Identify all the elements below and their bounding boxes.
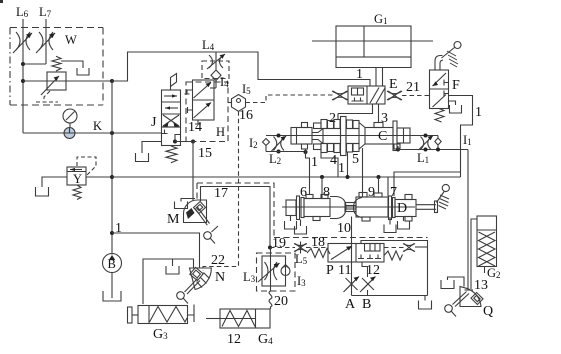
svg-text:H: H <box>216 125 225 139</box>
wire L4 stem <box>215 52 217 70</box>
pressure gauge <box>63 109 77 123</box>
spool D centerline <box>282 206 415 208</box>
pilot controller Q sector <box>460 287 481 307</box>
E right cell diagonals <box>370 88 379 104</box>
valve 14 arrow upper <box>194 83 212 99</box>
wire P right box <box>361 241 428 296</box>
wire G2 supply <box>471 219 477 289</box>
valve 14 port stubs <box>185 90 193 94</box>
spring P left <box>307 249 330 258</box>
svg-text:21: 21 <box>406 80 420 95</box>
G3 rod <box>132 314 138 316</box>
svg-text:G2: G2 <box>487 266 501 280</box>
svg-text:B: B <box>108 257 116 271</box>
wire 15 vertical to M <box>192 142 194 202</box>
wire port6 vertical <box>306 149 310 195</box>
P right stubs <box>358 255 364 259</box>
G1 port lines <box>375 68 377 87</box>
svg-text:L3: L3 <box>243 270 256 284</box>
valve J body <box>162 90 181 127</box>
pump B <box>103 254 122 273</box>
node K <box>110 131 114 135</box>
Q lever <box>453 292 467 305</box>
svg-text:19: 19 <box>272 236 286 251</box>
node 15 <box>191 140 195 144</box>
spool D section B <box>356 197 388 217</box>
spool D left cap <box>286 200 296 216</box>
tank (relief) <box>77 68 89 75</box>
node port6 branch <box>304 150 308 154</box>
node J outlet <box>173 140 177 144</box>
svg-text:L6: L6 <box>16 5 29 19</box>
pilot controller N sector <box>190 268 212 290</box>
svg-text:F: F <box>452 78 460 93</box>
spool D right bars <box>389 196 392 220</box>
wire spring to tank <box>61 61 83 68</box>
svg-text:I3: I3 <box>297 274 306 288</box>
N lever <box>185 279 198 293</box>
svg-text:20: 20 <box>274 294 288 309</box>
svg-text:J: J <box>151 115 157 130</box>
spool D end cap <box>395 200 416 217</box>
svg-text:G1: G1 <box>374 12 388 26</box>
wire E to port 3 <box>378 104 380 123</box>
spool C land tabs top-right <box>347 120 353 129</box>
orifice E left <box>332 91 348 100</box>
D lever <box>437 191 445 203</box>
tank (Y) <box>36 187 49 196</box>
spool C right body <box>365 128 393 145</box>
M dark wedge <box>186 208 195 219</box>
dashed enclosure L3 <box>257 253 296 291</box>
svg-text:B: B <box>362 297 371 312</box>
spool C mid body right <box>346 129 359 144</box>
tank (M) <box>175 202 188 209</box>
F spring <box>435 109 444 123</box>
valve J arrow left <box>165 107 178 109</box>
svg-text:P: P <box>326 263 334 278</box>
wire E to port 2 jog <box>337 114 339 120</box>
wire 19 down through L3 <box>270 248 272 292</box>
F lever <box>442 48 455 59</box>
Q knob <box>445 305 453 313</box>
pilot controller M sector <box>184 200 207 223</box>
svg-text:1: 1 <box>356 67 363 82</box>
wire 17 line <box>201 187 271 248</box>
N tank stem <box>172 259 174 266</box>
pilot dashes 16 to E <box>246 95 334 103</box>
node W outlet right <box>110 79 114 83</box>
F upper stub <box>444 80 449 86</box>
spool D end bottom tab <box>405 217 412 222</box>
node W outlet left <box>21 79 25 83</box>
svg-text:13: 13 <box>474 278 488 293</box>
filter circle (blue) <box>64 128 75 139</box>
svg-text:G4: G4 <box>258 332 273 347</box>
cylinder G3 rod cap <box>128 307 133 323</box>
wire D ports verticals <box>321 177 323 198</box>
dashed enclosure H <box>186 82 228 142</box>
D knob <box>442 184 449 191</box>
D rod <box>416 204 436 206</box>
N arc hatches <box>204 273 210 279</box>
node 19 <box>268 246 272 250</box>
svg-text:12: 12 <box>366 263 380 278</box>
spool C right bottom tab <box>394 144 400 149</box>
D tank right <box>389 217 391 225</box>
G4 spring <box>222 311 255 327</box>
corner speck <box>0 0 3 3</box>
svg-text:I2: I2 <box>249 136 258 150</box>
G3 rod right <box>188 305 195 323</box>
spool D section B bottom tab <box>362 217 370 221</box>
P right notch box <box>365 244 381 252</box>
node Y main <box>110 175 114 179</box>
spool D end top tab <box>405 195 412 200</box>
svg-text:11: 11 <box>338 263 351 278</box>
svg-text:L5: L5 <box>295 252 308 266</box>
valve J tappet flag <box>171 74 177 91</box>
dashed enclosure 17 <box>197 183 274 236</box>
G2 stub bottom <box>484 267 486 274</box>
svg-text:I1: I1 <box>463 133 472 147</box>
wire port 5 <box>347 152 349 177</box>
wire bottom AB line <box>352 295 428 297</box>
svg-text:1: 1 <box>311 155 318 170</box>
node L1 top <box>424 134 428 138</box>
wire Y to tank <box>42 177 67 187</box>
wire L7 to L6 <box>23 63 46 65</box>
F bent neck <box>435 56 443 71</box>
svg-text:4: 4 <box>330 153 337 168</box>
check valve I4 <box>211 70 221 80</box>
spool C right bars <box>393 121 397 151</box>
spool C left top tab <box>302 123 308 128</box>
Q inner tilted block <box>471 292 483 304</box>
pilot dashes 16 down to N <box>203 111 239 271</box>
cylinder G4 body <box>220 309 270 328</box>
wire L7 vertical <box>45 19 47 64</box>
spool D bulge <box>330 197 346 219</box>
svg-text:22: 22 <box>211 253 225 268</box>
svg-text:W: W <box>65 33 77 47</box>
M knob <box>204 232 212 240</box>
orifice P right <box>403 244 415 252</box>
svg-text:10: 10 <box>337 221 351 236</box>
spool D section A <box>304 199 330 217</box>
M lever <box>197 207 210 224</box>
svg-text:17: 17 <box>214 186 228 201</box>
tank (F) <box>450 105 462 113</box>
spool C right cap <box>397 128 410 143</box>
N inner tilted block <box>190 267 203 280</box>
relief valve spring <box>52 56 61 71</box>
pilot dashes 16 left <box>228 102 232 104</box>
spool D section B top tabs <box>359 193 367 198</box>
spool C centerline <box>266 135 438 137</box>
wire 15 line <box>175 141 193 143</box>
check valve I1 <box>435 136 441 150</box>
wire N output to G3 <box>143 259 194 304</box>
P left diagonal <box>331 246 352 260</box>
D pivot hatches <box>439 195 450 209</box>
F lower stub <box>444 91 449 97</box>
D tank far right <box>403 217 405 222</box>
spool D neck <box>345 203 356 212</box>
wire F output <box>449 96 473 178</box>
M inner tilted block <box>193 202 205 214</box>
wire J left to tank <box>142 142 162 154</box>
spool C left cap <box>291 128 312 145</box>
wire I1 vertical to Q <box>467 150 469 290</box>
spool C center pillar <box>341 117 347 156</box>
svg-text:I4: I4 <box>220 75 229 89</box>
spool C mid body left <box>323 129 341 144</box>
spool D section A top tab <box>306 195 313 199</box>
svg-text:I5: I5 <box>242 82 251 96</box>
F knob <box>454 42 461 49</box>
valve Y spring <box>73 185 81 200</box>
valve F body <box>430 70 449 109</box>
wire E to port 2 <box>338 104 373 114</box>
wire X to corner <box>415 246 428 248</box>
spool D facing arc <box>354 198 363 218</box>
throttle valve L6 <box>13 32 32 53</box>
check valve I3 <box>281 267 290 276</box>
orifice E right <box>387 91 402 100</box>
tank (AB line) <box>424 296 426 301</box>
valve E body <box>348 86 385 104</box>
wire B branch to N <box>112 233 200 268</box>
svg-text:L7: L7 <box>39 5 52 19</box>
wire port 4 <box>321 150 338 178</box>
cylinder G1 body <box>336 26 411 57</box>
spool C right top tab <box>374 123 383 128</box>
D lever bracket <box>435 201 438 213</box>
G1 rod <box>312 40 433 42</box>
svg-text:18: 18 <box>311 235 325 250</box>
spool C land tabs bottom-right <box>347 144 353 153</box>
valve 14 arrow lower <box>194 103 212 119</box>
node B branch <box>110 231 114 235</box>
valve J crossed section <box>163 115 179 126</box>
spool D bottom tab A <box>313 217 320 221</box>
F tank stub <box>449 101 456 105</box>
node spool right outlet <box>396 148 400 152</box>
G1 bottom skirt <box>336 57 411 68</box>
valve Y body <box>67 167 86 185</box>
throttle valve L7 <box>36 32 55 53</box>
cylinder G3 body <box>138 306 188 324</box>
node L2 bottom <box>277 150 281 154</box>
svg-text:L1: L1 <box>417 151 429 165</box>
E left cell notch <box>352 88 364 95</box>
main line 1 horizontal <box>112 176 461 178</box>
valve P body <box>328 244 384 263</box>
D tank far left <box>290 216 292 222</box>
spool C land tabs top-left <box>314 123 322 129</box>
pressure compensator box <box>47 72 66 90</box>
node L1 bottom <box>424 148 428 152</box>
spool C cone right <box>359 123 365 150</box>
wire L6 vertical <box>22 19 24 133</box>
svg-text:14: 14 <box>188 120 202 135</box>
hose squiggle 20 <box>269 291 272 309</box>
svg-text:D: D <box>397 201 407 216</box>
tank (N) <box>166 266 179 274</box>
spring P right <box>384 251 403 260</box>
node L2 top <box>277 134 281 138</box>
spool C left bottom tab <box>302 144 308 149</box>
valve Y pilot dashes <box>77 157 96 175</box>
svg-text:1: 1 <box>338 161 345 176</box>
valve J lower section <box>162 127 181 146</box>
orifice 19 <box>294 242 307 254</box>
G1 piston <box>363 26 365 57</box>
Q entry tick <box>465 289 474 291</box>
svg-text:C: C <box>378 129 387 144</box>
valve Y arrow <box>70 169 82 171</box>
svg-text:3: 3 <box>381 111 388 126</box>
M tank stub <box>181 199 195 202</box>
dashed enclosure W <box>10 28 103 106</box>
compensator arrow <box>41 76 59 95</box>
pilot dashes 19 <box>270 247 295 249</box>
throttle valve L4 <box>209 55 213 68</box>
svg-text:Q: Q <box>483 304 493 319</box>
wire W outlet horizontal <box>23 80 112 82</box>
restrictor B <box>360 277 376 293</box>
throttle valve L3 <box>265 262 269 280</box>
G4 rod left <box>206 318 220 320</box>
pilot dashes 18 long <box>274 237 428 239</box>
svg-text:5: 5 <box>352 152 359 167</box>
svg-text:K: K <box>93 119 102 133</box>
svg-text:E: E <box>389 77 398 92</box>
L3 solid box <box>262 256 286 286</box>
tank (J) <box>136 153 149 162</box>
G2 spring <box>479 232 496 266</box>
wire Y to main line <box>86 176 112 178</box>
node L6-L7 junction <box>21 62 25 66</box>
throttle valve L2 <box>272 136 287 151</box>
svg-text:Y: Y <box>73 172 82 186</box>
shuttle sensor 16 hexagon <box>232 95 246 112</box>
svg-text:1: 1 <box>475 105 482 120</box>
D tank left <box>300 220 302 227</box>
valve J spring <box>166 146 177 163</box>
svg-text:L4: L4 <box>202 38 215 52</box>
wire L2 lower line <box>266 151 305 153</box>
wire 10 vertical <box>351 217 353 296</box>
node main dots <box>320 175 324 179</box>
dashed enclosure I4 <box>202 61 229 79</box>
restrictor A <box>344 277 360 293</box>
Q tank stub <box>448 277 465 287</box>
tank (Q) <box>441 280 454 289</box>
pilot dashes 21 to F <box>402 95 430 97</box>
svg-text:8: 8 <box>323 185 330 200</box>
spool C neck left <box>312 129 323 144</box>
svg-text:16: 16 <box>239 108 253 123</box>
wire B to tank <box>111 273 113 299</box>
svg-text:12: 12 <box>227 332 241 347</box>
svg-text:L2: L2 <box>269 152 281 166</box>
node I1 bottom <box>436 148 440 152</box>
wire branch to D right <box>394 172 461 196</box>
spool D left bars <box>297 196 300 220</box>
svg-text:M: M <box>167 212 180 227</box>
wire B restrictor down <box>367 290 369 296</box>
pilot dashes P right <box>384 247 404 249</box>
check valve I2 <box>263 139 270 146</box>
svg-text:A: A <box>345 297 356 312</box>
spool C land tabs bottom-left <box>314 144 322 150</box>
compensator pilot dashes <box>36 91 58 102</box>
cylinder G2 body <box>477 216 497 267</box>
F upper diagonal <box>433 73 447 86</box>
svg-text:2: 2 <box>329 111 336 126</box>
valve J arrow right <box>164 95 177 97</box>
svg-text:N: N <box>215 270 225 285</box>
F lower diagonal <box>433 95 447 108</box>
throttle valve L1 <box>419 136 434 151</box>
svg-text:G3: G3 <box>153 327 168 342</box>
svg-text:1: 1 <box>115 221 122 236</box>
wire system line 1 upper: to E valve <box>112 52 370 86</box>
G3 spring <box>150 307 188 323</box>
wire B jog <box>362 262 368 277</box>
main vertical pump line <box>111 81 113 255</box>
tank (B) <box>103 291 121 301</box>
valve 14 body <box>193 80 215 120</box>
wire L1 lower line <box>398 146 468 150</box>
wire K line <box>23 132 162 134</box>
F pivot hatches <box>447 51 458 67</box>
N knob <box>177 292 185 300</box>
svg-text:15: 15 <box>198 146 212 161</box>
